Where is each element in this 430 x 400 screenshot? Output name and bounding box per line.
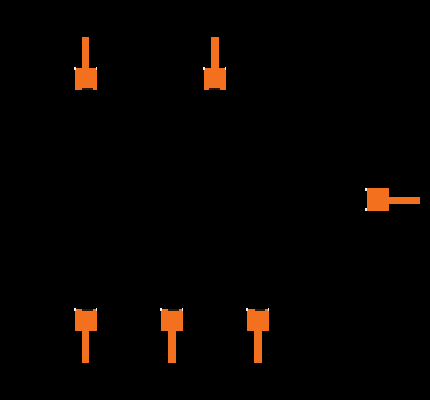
clipped black net-label text, left edge xyxy=(0,160,7,247)
pin 5 (bottom-right, points down): pad box xyxy=(247,309,269,331)
pin 5 body-edge nub left xyxy=(246,308,248,311)
pin 1 pad box xyxy=(75,68,97,90)
pin 5 body-edge nub right xyxy=(268,308,270,311)
pin 3 body-edge nub left xyxy=(74,308,76,311)
pin 4 body-edge nub left xyxy=(160,308,162,311)
pin 4 dark notch on pad top edge xyxy=(168,309,179,311)
pin 6 wire to image edge xyxy=(389,197,420,204)
pin 4 (bottom-middle, points down): pad box xyxy=(161,309,183,331)
pin 6 body-edge nub top xyxy=(365,188,367,191)
pin 2 dark notch on pad bottom edge xyxy=(209,88,220,90)
pin 4 body-edge nub right xyxy=(182,308,184,311)
clipped black net-label text, bottom edge xyxy=(97,389,199,400)
pin 5 wire stem xyxy=(254,331,262,363)
clipped black net-label text, bottom-right corner (upper block) xyxy=(375,345,430,400)
pin 1 (top-left, points up): wire stem xyxy=(82,37,89,69)
pin 1 body-edge nub left xyxy=(74,67,76,70)
pin 3 (bottom-left, points down): pad box xyxy=(75,309,97,331)
pin 6 body-edge nub bottom xyxy=(365,208,367,211)
pin 2 body-edge nub left xyxy=(203,67,205,70)
pin 1 dark notch on pad bottom edge xyxy=(82,88,93,90)
pin 6 (right side, points right): pad box xyxy=(367,188,390,212)
pin 3 wire stem xyxy=(82,331,90,363)
pin 3 dark notch on pad top edge xyxy=(82,309,93,311)
pin 2 body-edge nub right xyxy=(225,67,227,70)
clipped black net-label text, bottom-right corner (lower block) xyxy=(349,380,430,400)
clipped black net-label text, top-left corner (opaque black in source) xyxy=(0,0,31,22)
pin 1 body-edge nub right xyxy=(96,67,98,70)
pin 4 wire stem xyxy=(168,331,176,363)
pin 2 pad box xyxy=(204,68,226,90)
pin 5 dark notch on pad top edge xyxy=(255,309,266,311)
pin 3 body-edge nub right xyxy=(96,308,98,311)
pin 2 (top-right, points up): wire stem xyxy=(211,37,219,69)
